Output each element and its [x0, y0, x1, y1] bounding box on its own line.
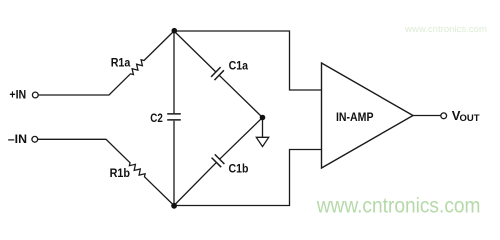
svg-text:–IN: –IN [8, 132, 27, 146]
svg-text:+IN: +IN [9, 88, 26, 102]
svg-text:R1b: R1b [110, 166, 130, 180]
svg-text:www.cntronics.com: www.cntronics.com [316, 194, 481, 218]
svg-text:IN-AMP: IN-AMP [336, 110, 374, 124]
svg-text:www.cntronics.com: www.cntronics.com [404, 24, 487, 35]
svg-text:C1a: C1a [229, 59, 249, 73]
svg-text:C1b: C1b [229, 161, 249, 175]
svg-text:OUT: OUT [460, 113, 480, 124]
svg-text:R1a: R1a [111, 56, 131, 70]
svg-text:C2: C2 [150, 111, 163, 125]
